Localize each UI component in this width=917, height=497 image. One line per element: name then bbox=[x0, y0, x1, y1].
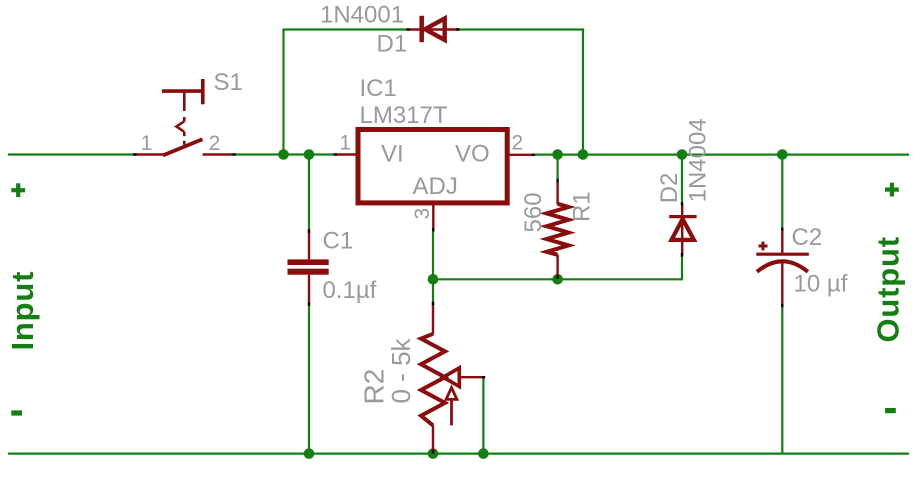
switch S1 bbox=[134, 79, 234, 155]
pin tick R2 bottom bbox=[432, 450, 434, 453]
pin tick C2 bottom bbox=[781, 304, 783, 307]
wire bottom rail bbox=[8, 453, 909, 455]
label 0 - 5k bbox=[386, 337, 416, 403]
wire IC pin2 to output rail right bbox=[533, 154, 909, 156]
label 10 uf bbox=[794, 271, 848, 298]
pin tick IC1 pin3 bbox=[432, 228, 434, 231]
IC1 pin 1 lead bbox=[335, 153, 356, 155]
svg-text:D2: D2 bbox=[656, 173, 683, 204]
node junction switch/D1 bbox=[278, 149, 289, 160]
svg-text:VI: VI bbox=[381, 141, 404, 168]
label 0.1uf bbox=[323, 277, 377, 304]
pin tick IC1 pin2 bbox=[532, 154, 535, 156]
wire R1 bottom stub bbox=[556, 277, 558, 279]
svg-text:Output: Output bbox=[870, 236, 905, 342]
svg-text:2: 2 bbox=[209, 132, 221, 155]
wire vertical D1 right down bbox=[582, 30, 584, 155]
pin tick R1 top bbox=[556, 179, 558, 182]
node junction R2 bottom bbox=[428, 448, 439, 459]
label D2 bbox=[656, 173, 683, 204]
node junction D2 top bbox=[677, 149, 688, 160]
node junction ADJ bbox=[428, 274, 439, 285]
label 1N4001 bbox=[320, 2, 404, 29]
pin tick S1 pin1 bbox=[133, 153, 136, 155]
svg-text:C2: C2 bbox=[792, 224, 823, 251]
potentiometer R2 bbox=[421, 304, 483, 453]
pin number IC1-2 bbox=[512, 132, 524, 155]
pin tick D2 top bbox=[681, 202, 683, 205]
svg-text:1: 1 bbox=[339, 132, 351, 155]
label VI bbox=[381, 141, 404, 168]
wire down to C1 bbox=[308, 155, 310, 231]
svg-text:Input: Input bbox=[5, 271, 40, 351]
label D1 bbox=[377, 31, 408, 58]
svg-text:ADJ: ADJ bbox=[413, 173, 458, 200]
pin tick D2 bottom bbox=[681, 253, 683, 256]
svg-text:0.1µf: 0.1µf bbox=[323, 277, 377, 304]
IC1 pin 3 lead bbox=[432, 205, 434, 229]
pin tick R1 bottom bbox=[556, 276, 558, 279]
pin number S1-2 bbox=[209, 132, 221, 155]
svg-text:10 µf: 10 µf bbox=[794, 271, 848, 298]
pin tick C1 top bbox=[308, 229, 310, 232]
pin tick D1 cathode bbox=[456, 28, 459, 30]
wire ADJ down to R2 bbox=[432, 230, 434, 304]
wire vertical up to D1 left bbox=[282, 30, 284, 155]
wire C1 to bottom rail bbox=[308, 305, 310, 454]
diode D1 bbox=[407, 16, 458, 42]
label IC1 bbox=[360, 75, 397, 102]
label C2 bbox=[792, 224, 823, 251]
pin number IC1-3 bbox=[411, 208, 434, 220]
label VO bbox=[455, 141, 490, 168]
wire R1 top bbox=[556, 155, 558, 181]
pin tick C1 bottom bbox=[308, 303, 310, 306]
svg-text:1: 1 bbox=[141, 132, 153, 155]
pin number IC1-1 bbox=[339, 132, 351, 155]
svg-text:2: 2 bbox=[512, 132, 524, 155]
node junction C1 top bbox=[304, 149, 315, 160]
node junction R1 top bbox=[552, 149, 563, 160]
pin tick C2 top bbox=[781, 228, 783, 231]
svg-text:IC1: IC1 bbox=[360, 75, 397, 102]
svg-text:0 - 5k: 0 - 5k bbox=[386, 337, 416, 403]
C2 plus mark bbox=[759, 242, 768, 251]
svg-text:3: 3 bbox=[411, 208, 434, 220]
node junction C2 top bbox=[777, 149, 788, 160]
svg-text:VO: VO bbox=[455, 141, 490, 168]
svg-text:S1: S1 bbox=[214, 69, 243, 96]
IC1 pin 2 lead bbox=[510, 154, 533, 156]
svg-text:1N4001: 1N4001 bbox=[320, 2, 404, 29]
node Input plus bbox=[11, 183, 25, 197]
svg-text:D1: D1 bbox=[377, 31, 408, 58]
wire R2 wiper down bbox=[482, 377, 484, 453]
svg-text:R1: R1 bbox=[569, 191, 596, 222]
wire D1 cathode to corner bbox=[458, 28, 585, 30]
op-amp IC1 LM317T body bbox=[358, 130, 507, 203]
wire C2 to bottom rail bbox=[781, 306, 783, 454]
node junction wiper bottom bbox=[478, 448, 489, 459]
svg-text:C1: C1 bbox=[323, 228, 354, 255]
label ADJ bbox=[413, 173, 458, 200]
label R1 bbox=[569, 191, 596, 222]
C1 leads bbox=[308, 231, 310, 305]
wire D2 bottom vertical bbox=[681, 256, 683, 281]
node junction R1 bottom bbox=[552, 274, 563, 285]
label 1N4004 bbox=[684, 118, 711, 202]
node Output minus bbox=[885, 408, 896, 413]
label LM317T bbox=[360, 102, 448, 129]
label S1 bbox=[214, 69, 243, 96]
pin tick R2 wiper bbox=[482, 376, 485, 378]
svg-text:560: 560 bbox=[520, 192, 547, 232]
wire top to D1 anode bbox=[282, 28, 407, 30]
diode D2 bbox=[669, 205, 696, 255]
resistor R1 bbox=[547, 181, 569, 278]
pin tick D1 anode bbox=[406, 28, 409, 30]
capacitor C1 bbox=[288, 259, 329, 274]
wire C2 top bbox=[781, 155, 783, 230]
capacitor C2 polarized bbox=[756, 230, 809, 306]
label R2 bbox=[359, 369, 390, 405]
node junction C1 bottom bbox=[304, 448, 315, 459]
pin tick R2 top bbox=[432, 302, 434, 305]
node junction D1 return bbox=[578, 149, 589, 160]
pin tick S1 pin2 bbox=[233, 153, 236, 155]
node Output plus bbox=[885, 183, 899, 197]
label C1 bbox=[323, 228, 354, 255]
svg-text:LM317T: LM317T bbox=[360, 102, 448, 129]
pin number S1-1 bbox=[141, 132, 153, 155]
pin tick IC1 pin1 bbox=[334, 153, 337, 155]
wire D2 top vertical bbox=[681, 155, 683, 204]
svg-text:1N4004: 1N4004 bbox=[684, 118, 711, 202]
wire ADJ horizontal bbox=[433, 278, 682, 280]
wire switch to IC pin1 bbox=[235, 153, 336, 155]
label 560 bbox=[520, 192, 547, 232]
node Input minus bbox=[11, 410, 22, 415]
label Input bbox=[5, 271, 40, 351]
label Output bbox=[870, 236, 905, 342]
wire input rail left bbox=[8, 153, 134, 155]
